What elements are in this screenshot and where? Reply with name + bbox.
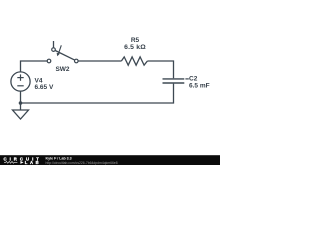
logo arrow [20,161,23,164]
wire resistor to top-right corner and down to capacitor [147,61,173,78]
wire capacitor down to bottom-right corner and left to V4 [21,84,174,103]
svg-text:LAB: LAB [25,160,42,165]
node junction at V4 bottom [19,101,23,105]
footer bar [0,155,220,165]
ground [13,103,29,119]
capacitor C2 [163,79,185,83]
svg-text:6.5 kΩ: 6.5 kΩ [124,44,146,51]
logo resistor squiggle [4,161,17,163]
svg-text:Kyle F / Lab 3.3: Kyle F / Lab 3.3 [46,156,72,160]
svg-text:http://circuitlab.com/cs226-7b: http://circuitlab.com/cs226-7b64dpdm4qkm… [46,161,118,165]
svg-text:SW2: SW2 [55,66,69,73]
svg-text:6.65 V: 6.65 V [35,84,54,91]
switch SW2 [47,45,78,63]
wire top-left from V4 to switch [21,61,48,72]
label dash for C2 [185,78,188,80]
svg-text:6.5 mF: 6.5 mF [189,82,210,89]
wire switch to resistor [78,60,121,62]
switch SW2 upper throw stub wire [53,41,55,48]
resistor R5 [121,57,147,65]
voltage source V4 [11,72,30,91]
wire V4 bottom [20,91,22,103]
svg-text:C2: C2 [189,75,198,82]
